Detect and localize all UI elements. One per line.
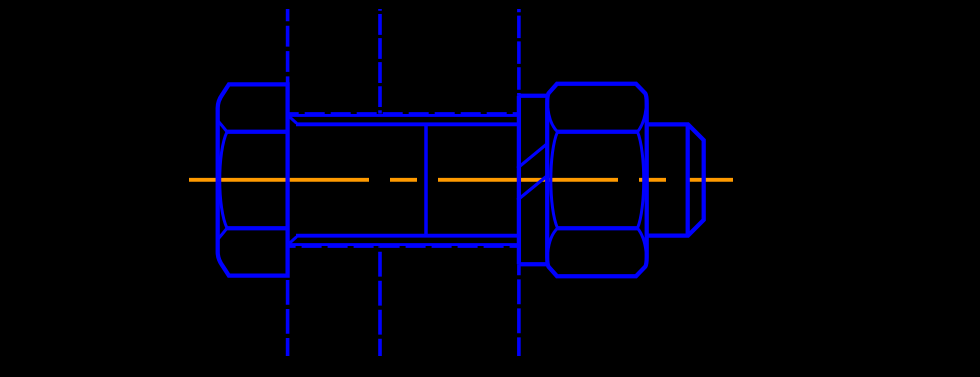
nut lower face division line bbox=[558, 226, 638, 230]
construction line at washer face (x=518.9), dashed above washer bbox=[517, 9, 521, 96]
bolt head bottom-face chamfer arc (sliver) bbox=[219, 228, 228, 238]
nut top-face chamfer arc, left sliver bbox=[548, 108, 558, 132]
construction line mid-shank (x=380), dashed above shank bbox=[378, 9, 382, 114]
construction line at washer face (x=518.9), dashed below washer bbox=[517, 264, 521, 356]
spring washer left face bbox=[517, 96, 521, 264]
spring washer split line lower bbox=[517, 176, 547, 200]
nut bottom-face chamfer arc, left sliver bbox=[548, 228, 558, 252]
construction line at head bearing face (x=287.6), dashed below head bbox=[286, 280, 290, 356]
nut bottom-face chamfer arc, right sliver bbox=[638, 228, 647, 252]
shank major-diameter dashed line, top (thread crest) bbox=[288, 112, 517, 115]
centre line (orange dash-dot) bbox=[189, 178, 733, 182]
spring washer split line upper bbox=[517, 144, 547, 168]
bolt head top-face chamfer arc (sliver) bbox=[219, 122, 228, 132]
thread root line, bottom bbox=[296, 234, 517, 238]
shank outline solid line, top bbox=[288, 114, 517, 117]
thread run-out boundary vertical (x=426) bbox=[424, 124, 428, 235]
nut top-face chamfer arc, right sliver bbox=[638, 108, 647, 132]
thread chamfer at head, bottom bbox=[289, 237, 297, 244]
shank major-diameter dashed line, bottom (thread crest) bbox=[288, 245, 517, 248]
bolt head middle-face chamfer arc bbox=[220, 132, 227, 228]
nut upper face division line bbox=[558, 130, 638, 134]
thread chamfer at head, top bbox=[289, 116, 297, 123]
nut middle-face chamfer arc, right bbox=[638, 132, 644, 228]
construction line mid-shank (x=380), dashed below shank bbox=[378, 246, 382, 356]
nut silhouette (hex, across-corners side view) bbox=[547, 84, 647, 276]
nut middle-face chamfer arc, left bbox=[551, 132, 558, 228]
spring washer bottom edge bbox=[519, 262, 547, 266]
bolt head silhouette (hex, across-corners side view) bbox=[218, 84, 288, 275]
spring washer top edge bbox=[519, 94, 547, 98]
protruding bolt end outline bbox=[647, 124, 704, 235]
thread root line, top bbox=[296, 122, 517, 126]
bolt end chamfer circle line (x=687.7) bbox=[686, 124, 690, 235]
construction line at head bearing face (x=287.6), dashed above head bbox=[286, 9, 290, 84]
bolt head upper face division line bbox=[227, 130, 288, 134]
bolt head lower face division line bbox=[227, 226, 288, 230]
shank outline solid line, bottom bbox=[288, 243, 517, 246]
